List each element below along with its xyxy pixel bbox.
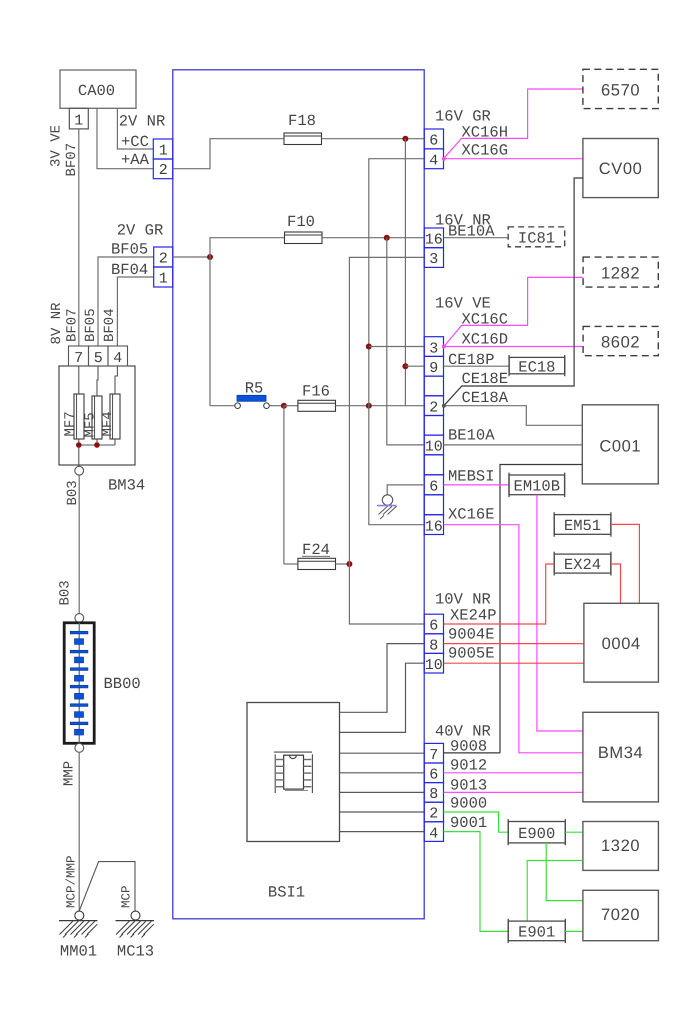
svg-text:XC16D: XC16D — [462, 331, 509, 349]
svg-text:16: 16 — [425, 518, 443, 535]
svg-text:B03: B03 — [58, 580, 74, 605]
connector CA00 — [60, 70, 136, 108]
riser wire x210 F10 to R5 — [210, 238, 285, 406]
wire BE10A pin10 to C001 — [444, 444, 583, 446]
svg-text:MF4: MF4 — [100, 411, 116, 436]
svg-text:9004E: 9004E — [448, 626, 495, 644]
svg-text:EM51: EM51 — [564, 517, 601, 535]
fuse MF7 — [63, 366, 85, 466]
svg-text:6: 6 — [429, 767, 438, 784]
svg-text:BF07: BF07 — [65, 308, 81, 342]
component E900 — [508, 819, 565, 845]
fuse F10 — [285, 232, 425, 244]
wire 9008 pin7 to IC81 riser (dark) — [444, 752, 501, 754]
svg-text:EM10B: EM10B — [514, 478, 561, 496]
component 6570 (dashed) — [583, 69, 658, 108]
svg-text:MEBSI: MEBSI — [448, 468, 495, 486]
svg-text:+CC: +CC — [121, 133, 149, 151]
svg-text:CE18E: CE18E — [462, 370, 509, 388]
svg-text:BM34: BM34 — [108, 477, 145, 495]
connector 2 pins 16/3 — [424, 228, 443, 268]
wire micro to pin10 (conn4) — [340, 663, 425, 732]
wire 9004E to 0004 (red) — [444, 643, 584, 645]
wire +AA lead from CA00 to pin 2 — [97, 108, 153, 168]
wire micro to pin6 — [340, 772, 425, 774]
wire MEBS1 ground drop — [387, 485, 424, 495]
fuse F16 — [284, 400, 424, 411]
wire 9001 pin4 to E901 (green) — [444, 832, 509, 932]
svg-text:BF05: BF05 — [83, 308, 99, 342]
wire MEBS1 to EM10B (magenta) — [444, 484, 510, 486]
wire MCP/MMP down to ground — [78, 752, 80, 911]
junction F24 output — [346, 561, 352, 567]
svg-text:1: 1 — [74, 113, 83, 130]
wire branch to pin 3 XC16D — [369, 346, 424, 348]
svg-text:E900: E900 — [518, 825, 555, 843]
battery BB00 — [64, 622, 94, 743]
component EX24 — [554, 552, 611, 576]
component 1320 — [583, 822, 659, 871]
junction at riser — [207, 254, 213, 260]
svg-text:BM34: BM34 — [598, 744, 644, 762]
component 1282 (dashed) — [583, 257, 658, 287]
wire pin2 to F18 — [173, 139, 284, 169]
wire XC16H to 6570 (magenta) — [444, 89, 583, 159]
svg-text:3: 3 — [429, 251, 438, 268]
wire micro to pin8 (conn4) — [340, 644, 425, 713]
svg-text:BF04: BF04 — [102, 308, 118, 342]
wire 9000 pin2 to E900 (green) — [444, 812, 509, 832]
wire C001 to 9008 riser (dark) — [500, 465, 582, 753]
ground symbol (MEBS1) — [377, 495, 397, 519]
svg-text:2: 2 — [429, 399, 438, 416]
svg-text:1: 1 — [159, 143, 168, 160]
svg-text:2: 2 — [159, 251, 168, 268]
svg-text:CA00: CA00 — [78, 82, 115, 100]
wire CE18A from pin2 to C001 — [444, 406, 583, 426]
wire 1320 to E901 (green) — [527, 861, 583, 922]
wire XE24P pin6 to EX24 (red) — [444, 564, 555, 624]
svg-text:10: 10 — [425, 657, 443, 674]
component CV00 — [583, 139, 658, 198]
wire B03 down to battery BB00 — [78, 475, 80, 613]
wire BE10A to IC81 — [444, 237, 509, 239]
connector 4 pins 6/8/10 — [424, 614, 443, 674]
svg-text:BE10A: BE10A — [448, 427, 495, 445]
wire joining fuse outputs — [79, 444, 115, 446]
svg-text:1320: 1320 — [601, 837, 640, 855]
svg-text:3V VE: 3V VE — [49, 125, 65, 167]
svg-text:4: 4 — [113, 350, 122, 367]
connector 1 pins 6/4 — [424, 129, 443, 169]
svg-text:2: 2 — [429, 806, 438, 823]
svg-text:4: 4 — [429, 825, 438, 842]
junction F16 output / pin4 riser — [366, 403, 372, 409]
wire net pin3(16V NR) / F24 / XE24P riser x349 — [349, 257, 424, 624]
wire EM10B to BM34 (magenta) — [537, 495, 583, 731]
svg-text:F16: F16 — [302, 383, 330, 401]
IC chip symbol — [274, 752, 312, 793]
svg-text:2V GR: 2V GR — [117, 222, 164, 240]
connector circle at BM34 output — [75, 466, 84, 475]
connector circle at BB00 bottom — [75, 744, 84, 753]
svg-text:9: 9 — [429, 360, 438, 377]
wire pin2 GR to F10 riser — [173, 256, 210, 258]
component EC18 — [509, 355, 565, 377]
svg-text:BF05: BF05 — [111, 241, 148, 259]
svg-text:F18: F18 — [288, 112, 316, 130]
pin 1 of CA00 — [69, 108, 88, 129]
junction on F18 output — [402, 136, 408, 142]
wire micro to pin2 — [340, 811, 425, 813]
wire XC16E to BM34 (magenta) — [444, 525, 583, 753]
svg-text:9013: 9013 — [450, 777, 487, 795]
ECU box BSI1 outline — [173, 70, 424, 919]
svg-text:MF5: MF5 — [83, 412, 99, 437]
svg-text:C001: C001 — [599, 438, 641, 456]
svg-text:1: 1 — [159, 271, 168, 288]
svg-text:8V NR: 8V NR — [49, 302, 65, 345]
svg-text:E901: E901 — [518, 924, 555, 942]
wire CE18E from pin2 up to CV00 — [444, 178, 583, 406]
component EM51 — [554, 512, 611, 537]
svg-text:6: 6 — [429, 618, 438, 635]
junction pin 3 magenta — [442, 345, 446, 349]
svg-text:XC16G: XC16G — [462, 142, 509, 160]
wire E901 to 7020 (green) — [565, 930, 583, 932]
svg-text:BB00: BB00 — [104, 675, 141, 693]
wire CE18P to EC18 — [444, 365, 510, 367]
svg-text:R5: R5 — [245, 380, 264, 398]
svg-text:2: 2 — [159, 162, 168, 179]
svg-text:9012: 9012 — [450, 757, 487, 775]
svg-text:4: 4 — [429, 152, 438, 169]
wire 9012 to BM34 (magenta) — [444, 772, 583, 774]
BSI pin 2 (left, BF05) — [154, 247, 173, 268]
svg-text:MCP/MMP: MCP/MMP — [65, 855, 79, 908]
component E901 — [508, 919, 565, 943]
wire XC16D to 8602 (magenta) — [444, 346, 584, 348]
microcontroller box — [247, 703, 340, 842]
wire 9005E to 0004 (red) — [444, 662, 584, 664]
component EM10B — [509, 473, 565, 498]
svg-text:F10: F10 — [287, 213, 315, 231]
svg-text:IC81: IC81 — [518, 230, 555, 248]
svg-text:2V NR: 2V NR — [119, 113, 166, 131]
resistor R5 — [210, 380, 284, 409]
svg-text:0004: 0004 — [602, 635, 641, 653]
svg-text:7020: 7020 — [601, 906, 640, 924]
svg-text:9005E: 9005E — [448, 645, 495, 663]
svg-text:MMP: MMP — [62, 761, 78, 786]
svg-text:8602: 8602 — [601, 334, 640, 352]
component 7020 — [583, 890, 659, 940]
wire EX24 to 0004 (red) — [611, 564, 621, 603]
svg-text:MC13: MC13 — [117, 943, 154, 961]
wire branch to pin 9 — [405, 365, 424, 367]
wire BF05 into pin 2 and down to BM34 pin 5 — [98, 257, 154, 346]
svg-text:8: 8 — [429, 637, 438, 654]
svg-text:9000: 9000 — [450, 795, 487, 813]
BM34 pins 7/5/4 — [69, 346, 128, 367]
wire micro to pin8 — [340, 791, 425, 793]
svg-text:BF07: BF07 — [64, 143, 80, 177]
fuse F18 — [284, 133, 424, 145]
component C001 — [582, 405, 658, 484]
svg-text:10: 10 — [425, 439, 443, 456]
svg-text:CE18A: CE18A — [462, 389, 509, 407]
connector 5 pins 7/6/8/2/4 — [424, 743, 443, 842]
wire EM51 to 0004 (red) — [611, 524, 640, 603]
svg-text:8: 8 — [429, 786, 438, 803]
junction R5/F16/F24 — [281, 403, 287, 409]
junction MF5 — [94, 442, 100, 448]
wire net pin4 riser x368.8 (XC16 net) — [369, 159, 424, 525]
svg-text:MM01: MM01 — [60, 943, 97, 961]
wire BF07 from CA00 pin1 down to pin 7 of BM34 — [78, 129, 80, 346]
BSI pin 1 (left, +CC) — [153, 139, 173, 160]
junction pin 4 magenta — [442, 157, 446, 161]
svg-text:3: 3 — [429, 340, 438, 357]
component BM34 (right) — [583, 712, 659, 802]
svg-text:MF7: MF7 — [63, 411, 79, 436]
wire XC16C to 1282 (magenta) — [444, 277, 583, 346]
ground MC13 — [116, 911, 155, 960]
component 0004 — [584, 603, 659, 682]
svg-text:7: 7 — [74, 350, 83, 367]
svg-text:6: 6 — [429, 479, 438, 496]
BSI pin 1 (left, BF04) — [154, 267, 173, 288]
wire riser x386.8 F10 to pin10 BE10A — [387, 238, 424, 445]
svg-text:6570: 6570 — [601, 82, 640, 100]
branch wire to MC13 ground — [79, 862, 135, 911]
wire micro to pin4 — [340, 831, 425, 833]
fuse MF5 — [83, 366, 103, 445]
svg-text:5: 5 — [94, 350, 103, 367]
svg-text:+AA: +AA — [121, 151, 150, 169]
wire +CC lead from CA00 to pin 1 — [117, 108, 153, 149]
BSI pin 2 (left, +AA) — [153, 159, 173, 179]
svg-text:6: 6 — [429, 133, 438, 150]
svg-text:MCP: MCP — [120, 885, 134, 908]
ground MM01 — [59, 911, 98, 960]
svg-text:BF04: BF04 — [111, 261, 148, 279]
fuse MF4 — [100, 366, 120, 445]
wire 9013 to BM34 (magenta) — [444, 791, 583, 793]
junction MF7 — [76, 442, 82, 448]
connector 3 pins 3/9/-/2/-/10/-/6/-/16 — [424, 337, 443, 536]
svg-text:BSI1: BSI1 — [268, 884, 305, 902]
svg-text:XE24P: XE24P — [450, 607, 497, 625]
svg-text:EX24: EX24 — [564, 556, 601, 574]
wire BF04 into pin 1 and down to BM34 pin 4 — [117, 277, 153, 346]
wire XC16G to CV00 (magenta) — [444, 158, 583, 160]
junction pin 2 — [442, 404, 446, 408]
svg-text:16: 16 — [425, 231, 443, 248]
fuse F24 — [284, 558, 350, 569]
svg-text:EC18: EC18 — [518, 359, 555, 377]
svg-text:CV00: CV00 — [599, 160, 643, 178]
connector circle at BB00 top — [75, 614, 84, 623]
junction pin9 CE18P branch — [402, 363, 408, 369]
component IC81 (dashed) — [508, 227, 565, 248]
svg-text:1282: 1282 — [601, 265, 640, 283]
svg-text:7: 7 — [429, 747, 438, 764]
wire micro to pin7 — [340, 752, 425, 754]
wire E900 to 7020 (green) — [546, 843, 583, 901]
wire E900 to 1320 (green) — [565, 831, 583, 833]
wire drop to F24 — [283, 406, 285, 564]
BM34 fuse holder box (left) — [59, 366, 135, 465]
junction on F10 output — [384, 235, 390, 241]
wire riser x405.4 F18 to pin9/pin2 — [404, 139, 406, 406]
component 8602 (dashed) — [583, 326, 658, 355]
svg-text:XC16E: XC16E — [448, 506, 495, 524]
svg-text:9001: 9001 — [450, 814, 487, 832]
junction pin3 16V VE branch — [366, 344, 372, 350]
